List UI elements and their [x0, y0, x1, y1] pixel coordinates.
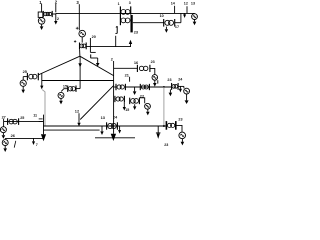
- tick above R2: [157, 80, 159, 83]
- wire W5 right: [86, 44, 130, 47]
- wire node1 down: [41, 4, 43, 13]
- current arrow on apex: [78, 63, 81, 67]
- svg-text:24: 24: [178, 77, 183, 81]
- tick 12t: [186, 6, 188, 13]
- core bar left: [119, 6, 121, 25]
- bottom bus B2seg: [95, 137, 135, 139]
- svg-text:1: 1: [118, 2, 120, 6]
- svg-text:23: 23: [151, 60, 155, 64]
- plus mark near node3: [76, 27, 79, 29]
- wire V25 to L25: [23, 76, 27, 78]
- source V12r: [145, 103, 151, 109]
- wire H2 to V12r: [139, 98, 144, 104]
- ground under V27: [2, 133, 4, 135]
- inductor cluster L16: [136, 65, 138, 72]
- inductor cluster I: [106, 122, 108, 129]
- wire apex to LM: [76, 88, 80, 90]
- arrow 12 down: [78, 113, 80, 123]
- main vertical wire: [113, 61, 115, 134]
- ground under V25: [22, 86, 24, 89]
- bottom wire B1: [4, 121, 44, 123]
- arrow up to core: [129, 40, 132, 44]
- ground stub 33: [33, 138, 35, 141]
- wire lower right: [133, 22, 164, 24]
- ground under V22: [186, 94, 188, 100]
- ground small 184: [184, 13, 186, 14]
- stub with foot: [89, 38, 91, 52]
- ground node2: [55, 13, 57, 21]
- gray wire down: [42, 90, 45, 126]
- plus mark left: [74, 40, 76, 42]
- wire node2 vertical: [55, 4, 57, 13]
- inductor cluster H1: [114, 96, 116, 102]
- svg-text:2: 2: [111, 57, 113, 61]
- svg-text:12: 12: [75, 108, 80, 113]
- ground stub 120: [119, 126, 121, 130]
- wire V3 to L3: [81, 37, 83, 43]
- inductor upper pair: [121, 10, 126, 15]
- thick ground 43: [41, 134, 46, 141]
- ground under V26: [4, 146, 6, 149]
- wire L10 up: [175, 22, 181, 24]
- source V23: [179, 132, 186, 139]
- source V3: [79, 30, 86, 37]
- source V1: [38, 18, 45, 25]
- gray vertical right: [163, 87, 165, 126]
- wire apex vertical: [79, 56, 81, 88]
- junction dot gray bottom: [163, 125, 165, 127]
- svg-text:10: 10: [160, 14, 164, 18]
- ground under V13: [194, 20, 196, 22]
- wire node down: [41, 73, 43, 86]
- inductor cluster F2: [139, 84, 141, 90]
- ground under V1: [41, 24, 43, 26]
- ground under H2: [134, 104, 136, 106]
- wire tent left arm: [40, 56, 80, 74]
- svg-text:23: 23: [134, 31, 138, 35]
- ground under V12r: [147, 109, 149, 112]
- svg-text:17: 17: [175, 25, 179, 29]
- svg-text:7: 7: [36, 143, 38, 147]
- svg-text:15: 15: [125, 108, 129, 112]
- ground G7: [90, 54, 92, 58]
- svg-text:20: 20: [92, 35, 96, 39]
- svg-text:23: 23: [164, 143, 168, 147]
- inductor cluster L1: [42, 11, 44, 17]
- svg-text:12: 12: [184, 2, 188, 6]
- svg-text:23: 23: [178, 117, 182, 121]
- arrow mark: [40, 86, 43, 90]
- wire R2 mid: [125, 86, 171, 88]
- stub ground 15: [123, 102, 125, 104]
- wire stub to W5: [115, 36, 117, 47]
- inductor cluster L25: [26, 73, 28, 80]
- wire K to V23: [176, 125, 182, 132]
- source V27: [0, 127, 6, 133]
- vertical 43: [43, 115, 45, 135]
- svg-text:2: 2: [55, 0, 58, 4]
- source V26: [2, 140, 8, 146]
- source VM: [58, 92, 64, 98]
- ground under G2 left: [169, 89, 171, 92]
- svg-text:23: 23: [167, 78, 171, 82]
- wire after G2: [178, 85, 184, 87]
- svg-text:14: 14: [171, 2, 176, 6]
- wire L1 to node2: [52, 13, 56, 15]
- core bar right upper: [130, 6, 132, 14]
- stub t ground: [116, 26, 118, 33]
- tick left end: [3, 119, 5, 122]
- box component B1: [38, 12, 43, 17]
- tick pair 43: [39, 118, 43, 120]
- ground under V23: [181, 139, 183, 142]
- wire branch 16: [114, 67, 138, 69]
- thick bar: [130, 15, 132, 32]
- inductor cluster L3: [79, 43, 81, 50]
- wire tent right arm: [80, 56, 114, 75]
- source V25: [20, 80, 26, 86]
- tick 14: [174, 6, 176, 14]
- inductor cluster H2: [129, 98, 131, 105]
- middle rail M1: [42, 80, 114, 82]
- stub 21: [129, 77, 131, 82]
- source V13: [194, 12, 196, 15]
- wire LM to VM: [61, 89, 67, 92]
- inductor cluster F1: [115, 84, 117, 90]
- ground under L10: [165, 27, 167, 30]
- bottom bus B3: [5, 137, 44, 139]
- svg-text:26: 26: [11, 133, 16, 138]
- stub to V27: [3, 122, 5, 127]
- source V16: [152, 75, 158, 81]
- svg-text:3: 3: [129, 1, 131, 5]
- wire node3 vertical: [78, 4, 80, 30]
- wire L16 to V16: [150, 68, 155, 74]
- svg-text:2: 2: [57, 16, 60, 21]
- ground stub 158: [157, 126, 159, 133]
- inductor cluster G2: [171, 83, 173, 90]
- inductor cluster LM: [67, 86, 69, 92]
- bottom bus wire2: [44, 129, 100, 131]
- wire diagonal X: [80, 86, 113, 120]
- bottom bus wire1: [44, 125, 167, 127]
- svg-text:11: 11: [33, 113, 37, 117]
- ground stub 102: [101, 126, 103, 131]
- ground under V16: [154, 80, 156, 83]
- top bus wire: [56, 12, 195, 14]
- ground mid R2: [134, 87, 136, 91]
- svg-text:25: 25: [20, 116, 24, 120]
- junction dot gray top: [163, 86, 165, 88]
- svg-text:13: 13: [191, 2, 195, 6]
- svg-text:15: 15: [63, 84, 67, 88]
- wire L25 to arm: [38, 73, 40, 76]
- inductor lower pair: [121, 18, 126, 23]
- inductor cluster K: [165, 121, 167, 130]
- svg-text:24: 24: [113, 114, 118, 119]
- ground stub 180: [179, 86, 181, 88]
- svg-text:13: 13: [101, 115, 106, 120]
- inductor cluster L10: [163, 19, 165, 27]
- ground under VM: [60, 98, 62, 100]
- wire to V22: [183, 86, 185, 88]
- source V22: [184, 88, 190, 94]
- wire L3 to apex: [79, 49, 81, 56]
- wire R2 left: [114, 86, 116, 88]
- inductor cluster J: [7, 118, 9, 125]
- thick ground main vertical: [111, 134, 116, 141]
- svg-text:16: 16: [134, 60, 139, 65]
- svg-text:21: 21: [125, 72, 130, 77]
- label l italic: [14, 141, 16, 148]
